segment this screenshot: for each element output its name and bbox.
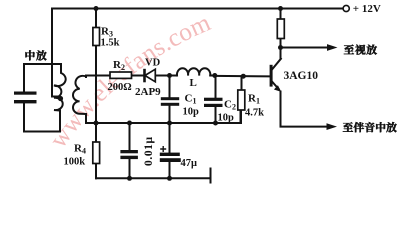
capacitor 0.01u plates (120, 150, 137, 153)
wire R4 leads (95, 123, 97, 142)
svg-text:R1: R1 (248, 93, 260, 106)
wire tank left branch upper (24, 64, 61, 92)
wire to video amp arrow line (281, 47, 332, 49)
diode VD triangle (145, 69, 155, 82)
resistor collector load body (277, 19, 284, 39)
ground rail end bar (210, 169, 212, 183)
wire +12V feed to primary coil tap (52, 9, 59, 97)
label to sound IF amp (343, 122, 397, 132)
resistor R1 body (238, 90, 245, 110)
svg-text:10p: 10p (218, 113, 235, 124)
wire C1 branch (169, 76, 171, 98)
junction node rail / 47u (167, 176, 172, 181)
resistor R3 body (93, 28, 100, 46)
wire L to C2 junction to base (210, 75, 214, 77)
capacitor 47u plates (160, 153, 180, 156)
wire middle bus (96, 110, 241, 123)
junction node top rail / R3 (94, 6, 99, 11)
svg-text:4.7k: 4.7k (245, 108, 264, 119)
arrowhead to video amp (327, 44, 338, 51)
transistor Q1 base bar (270, 65, 273, 87)
junction node rail / 0.01u (127, 176, 132, 181)
wire diode to C1 junction to L (156, 75, 178, 77)
transistor Q1 emitter lead (272, 82, 279, 90)
capacitor C2 plates (204, 98, 223, 101)
plus sign of 47u (160, 146, 166, 152)
label ZhongFang IF amp (25, 50, 46, 60)
wire R1 leads (241, 76, 243, 90)
junction node primary coil tap (58, 96, 63, 101)
svg-text:100k: 100k (64, 157, 86, 168)
wire R3 column from top rail through detector line to bus (95, 9, 97, 28)
wire top +12V rail (52, 8, 343, 10)
svg-text:1.5k: 1.5k (101, 38, 120, 49)
wire detector line R2 to diode (132, 75, 144, 77)
svg-text:0.01μ: 0.01μ (143, 136, 155, 166)
svg-text:3AG10: 3AG10 (284, 70, 319, 82)
wire tank left branch lower (24, 103, 60, 132)
resistor R2 body (110, 72, 132, 78)
diode VD cathode bar (143, 69, 146, 83)
junction node collector / video out (278, 45, 283, 50)
transistor Q1 emitter arrowhead (274, 85, 281, 92)
wire 47u cap branch (169, 123, 171, 153)
inductor T1 primary winding (54, 64, 66, 111)
inductor L peaking coil (177, 68, 210, 75)
junction node top rail / collector resistor (278, 6, 283, 11)
wire 0.01u cap branch (129, 123, 131, 150)
svg-text:VD: VD (145, 57, 161, 68)
svg-text:10p: 10p (183, 107, 200, 118)
wire ground rail (96, 177, 211, 179)
junction node C1 top (167, 73, 172, 78)
transistor Q1 collector lead (272, 59, 281, 70)
svg-text:+ 12V: + 12V (353, 3, 381, 15)
wire secondary top to detector line (86, 76, 110, 78)
junction node bus / C2 (213, 121, 218, 126)
inductor T1 secondary winding (73, 76, 86, 114)
resistor R4 body (93, 142, 100, 164)
watermark www.elecfans.com (36, 14, 259, 194)
svg-text:2AP9: 2AP9 (135, 86, 161, 98)
junction node bus / 0.01u (127, 121, 132, 126)
junction node R1 top (241, 74, 246, 79)
svg-text:R4: R4 (74, 143, 86, 156)
svg-text:C1: C1 (185, 93, 197, 106)
svg-text:47μ: 47μ (181, 158, 198, 169)
terminal +12V (343, 5, 349, 11)
junction node bus / R3 R4 (94, 121, 99, 126)
junction node C2 top (212, 73, 217, 78)
svg-text:C2: C2 (224, 99, 236, 112)
capacitor tank plates (14, 92, 37, 95)
wire emitter column and to sound IF arrow line (281, 92, 331, 127)
svg-text:L: L (190, 77, 197, 89)
wire C2 branch (215, 76, 217, 98)
label to video amp (344, 45, 377, 55)
capacitor C1 plates (161, 97, 179, 100)
junction node bus / C1 47u (167, 121, 172, 126)
arrowhead to sound IF (327, 123, 338, 130)
wire collector resistor leads / collector column (280, 9, 282, 20)
wire secondary bottom to middle bus (86, 114, 96, 123)
svg-text:200Ω: 200Ω (108, 82, 132, 93)
